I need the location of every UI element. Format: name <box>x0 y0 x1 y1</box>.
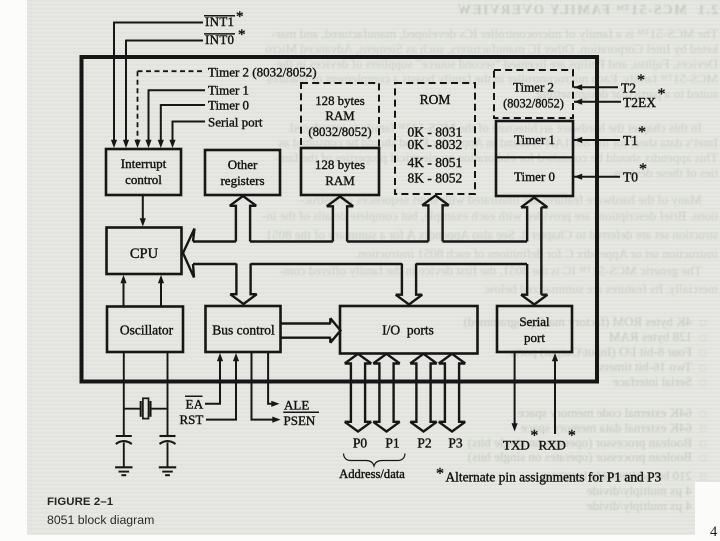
svg-text:port: port <box>524 330 545 345</box>
svg-text:P3: P3 <box>448 436 463 451</box>
svg-text:I/O ports: I/O ports <box>382 323 434 338</box>
svg-text:*: * <box>639 161 647 178</box>
svg-text:PSEN: PSEN <box>284 413 316 428</box>
svg-text:ROM: ROM <box>420 92 451 107</box>
svg-text:Timer 2: Timer 2 <box>513 80 554 95</box>
svg-text:RAM: RAM <box>325 173 355 188</box>
svg-text:T0: T0 <box>623 170 638 185</box>
svg-text:*: * <box>236 9 244 25</box>
svg-text:registers: registers <box>220 173 264 188</box>
svg-text:Serial port: Serial port <box>208 115 263 130</box>
svg-text:128 bytes: 128 bytes <box>315 157 365 172</box>
svg-text:P2: P2 <box>417 436 431 451</box>
svg-text:Timer 0: Timer 0 <box>208 97 249 112</box>
svg-text:8K - 8052: 8K - 8052 <box>408 171 463 186</box>
svg-text:Timer 1: Timer 1 <box>208 83 249 98</box>
svg-text:Timer 2 (8032/8052): Timer 2 (8032/8052) <box>208 65 317 80</box>
svg-text:(8032/8052): (8032/8052) <box>503 97 564 111</box>
svg-text:*: * <box>568 428 576 445</box>
svg-text:RXD: RXD <box>539 438 566 453</box>
svg-text:Timer 1: Timer 1 <box>514 132 555 147</box>
svg-text:(8032/8052): (8032/8052) <box>308 125 371 139</box>
svg-text:Address/data: Address/data <box>339 467 405 481</box>
svg-text:*: * <box>436 466 444 483</box>
svg-text:Other: Other <box>228 157 258 172</box>
svg-text:Timer 0: Timer 0 <box>514 169 555 184</box>
svg-text:*: * <box>637 72 645 89</box>
svg-text:P0: P0 <box>353 436 368 451</box>
svg-text:RST: RST <box>180 412 204 427</box>
svg-text:128 bytes: 128 bytes <box>315 94 364 108</box>
svg-text:0K - 8032: 0K - 8032 <box>408 137 463 152</box>
svg-text:control: control <box>125 172 162 187</box>
svg-text:Bus control: Bus control <box>212 323 275 338</box>
svg-text:TXD: TXD <box>503 438 530 453</box>
svg-text:Interrupt: Interrupt <box>121 156 167 171</box>
svg-text:T1: T1 <box>623 133 638 148</box>
svg-text:Serial: Serial <box>519 314 550 329</box>
svg-text:*: * <box>531 428 539 445</box>
svg-text:EA: EA <box>186 397 204 412</box>
svg-text:Alternate pin assignments for: Alternate pin assignments for P1 and P3 <box>446 470 662 485</box>
svg-text:*: * <box>658 86 666 103</box>
svg-text:T2EX: T2EX <box>623 95 656 110</box>
svg-text:4K - 8051: 4K - 8051 <box>408 155 463 170</box>
svg-text:CPU: CPU <box>130 246 159 262</box>
svg-text:ALE: ALE <box>284 397 309 412</box>
svg-text:*: * <box>638 124 646 141</box>
svg-text:RAM: RAM <box>325 109 354 123</box>
svg-text:T2: T2 <box>621 80 636 95</box>
svg-text:*: * <box>238 27 246 43</box>
svg-text:Oscillator: Oscillator <box>120 323 174 338</box>
svg-text:P1: P1 <box>385 436 399 451</box>
